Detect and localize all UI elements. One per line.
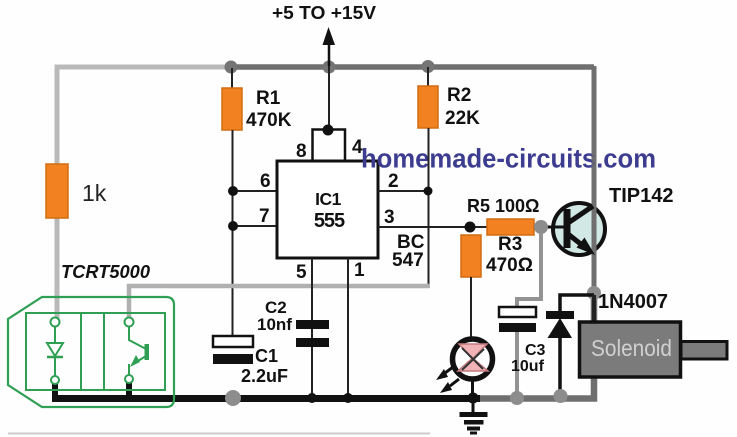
- wire: dark gray top supply rail: [229, 64, 594, 70]
- label R3 470ohm: [486, 234, 533, 276]
- label TIP142: [609, 185, 673, 207]
- pin label 3: [384, 207, 395, 228]
- label R1 470K: [246, 88, 292, 131]
- wire: pin 3 output line to R5: [378, 226, 487, 228]
- sensor phototransistor (inside TCRT5000): [125, 318, 150, 384]
- node: diode-rail junction: [554, 389, 568, 403]
- wire: collector node down to solenoid top: [592, 295, 596, 323]
- LED indicator: [453, 339, 493, 379]
- node: junction pin3 / R5 / R3: [465, 222, 476, 233]
- svg-text:+5 TO +15V: +5 TO +15V: [272, 3, 376, 23]
- label: +5 TO +15V: [272, 3, 376, 23]
- node: junction pins 8-4: [323, 125, 334, 136]
- pin label 7: [259, 206, 270, 227]
- pin label 4: [352, 137, 363, 158]
- svg-text:22K: 22K: [445, 108, 480, 129]
- svg-text:homemade-circuits.com: homemade-circuits.com: [361, 144, 656, 174]
- svg-text:3: 3: [384, 207, 395, 228]
- wire: collector node down to solenoid and bottom rail: [478, 292, 594, 399]
- svg-text:8: 8: [296, 141, 307, 162]
- wire: R5 to transistor base: [534, 226, 556, 229]
- wire: R1 bottom lead down to C1: [232, 130, 234, 337]
- label IC1 555: [314, 189, 345, 232]
- wire: pin 2 stub to R2 line: [378, 190, 428, 192]
- svg-text:C3: C3: [525, 342, 546, 359]
- watermark homemade-circuits.com: [361, 142, 656, 176]
- svg-text:IC1: IC1: [315, 189, 342, 209]
- svg-text:470K: 470K: [246, 110, 292, 131]
- solenoid: [580, 322, 728, 377]
- label 1k: [82, 180, 107, 206]
- decorative faint bottom line: [8, 433, 430, 435]
- svg-text:470Ω: 470Ω: [486, 255, 533, 276]
- node: rail junction at supply arrow: [323, 61, 336, 74]
- svg-text:5: 5: [296, 262, 307, 283]
- node: rail junction at R1: [225, 61, 238, 74]
- svg-text:2.2uF: 2.2uF: [241, 366, 288, 386]
- pin label 6: [260, 171, 271, 192]
- ground: [460, 398, 488, 435]
- node: rail junction at R2: [422, 60, 435, 73]
- label R5 100ohm: [467, 196, 539, 216]
- wire: pin 6 stub to R1 line: [233, 190, 277, 192]
- label BC 547: [392, 232, 425, 271]
- svg-text:R5 100Ω: R5 100Ω: [467, 196, 539, 216]
- resistor R3: [461, 235, 481, 277]
- wire: R2 top lead: [427, 67, 429, 87]
- svg-text:R1: R1: [256, 88, 281, 109]
- node: LED/ground rail junction: [468, 393, 479, 404]
- label C3 10uf: [511, 342, 546, 375]
- power: +5 TO +15V supply arrow: [323, 27, 336, 66]
- svg-text:TCRT5000: TCRT5000: [61, 262, 150, 282]
- capacitor C2: [296, 320, 329, 347]
- wire: diode branch from collector node: [560, 295, 594, 311]
- svg-text:TIP142: TIP142: [609, 185, 673, 207]
- transistor Q1 TIP142: [545, 203, 605, 255]
- resistor R1: [222, 88, 242, 130]
- svg-text:Solenoid: Solenoid: [591, 335, 672, 361]
- diode D1 1N4007: [546, 311, 574, 338]
- label C2 10nf: [257, 298, 292, 334]
- svg-text:C1: C1: [255, 346, 278, 366]
- op-amp/timer IC1 555 box: [277, 161, 378, 258]
- node: junction pin 2 / R2: [424, 187, 433, 196]
- wire: pin 7 stub to R1 line: [233, 225, 277, 227]
- wire: C3 bottom lead to rail: [515, 332, 519, 398]
- label TCRT5000: [61, 262, 150, 282]
- label 1N4007: [598, 291, 668, 313]
- wire: pin 1 lead down to rail: [347, 258, 349, 398]
- wire: diode anode to bottom rail: [558, 338, 562, 396]
- svg-text:547: 547: [392, 250, 424, 271]
- node: pin5/C2 rail junction: [307, 393, 317, 403]
- wire: supply dropper to pins 8 and 4: [328, 66, 330, 129]
- node: junction pin 7: [228, 221, 238, 231]
- pin label 8: [296, 141, 307, 162]
- resistor R5: [487, 219, 534, 235]
- node: base junction dot: [534, 220, 548, 234]
- wire: TCRT IR-LED cathode to rail: [52, 383, 58, 398]
- svg-text:R2: R2: [447, 85, 471, 106]
- node: C1 rail junction: [225, 390, 241, 406]
- label C1 2.2uF: [241, 346, 288, 386]
- wire: LED cathode to rail: [471, 378, 474, 398]
- label R2 22K: [445, 85, 480, 129]
- wire: sensor output line from TCRT collector to R2/pin2: [129, 286, 430, 318]
- node: C3 rail junction: [510, 391, 524, 405]
- LED light arrows: [436, 367, 459, 393]
- sensor inner frame: [26, 313, 165, 390]
- resistor 1k: [46, 164, 68, 218]
- wire: R2 bottom lead down to sensor line: [428, 128, 430, 284]
- svg-text:7: 7: [259, 206, 270, 227]
- svg-text:10nf: 10nf: [257, 315, 292, 334]
- wire: R3 bottom lead to LED: [470, 277, 472, 340]
- wire: pin 5 lead down through C2 to rail: [311, 258, 313, 398]
- svg-text:R3: R3: [498, 234, 522, 255]
- svg-text:2: 2: [388, 171, 399, 192]
- pin label 2: [388, 171, 399, 192]
- sensor TCRT5000 outline: [8, 297, 174, 407]
- wire: TCRT emitter to rail: [126, 382, 132, 398]
- resistor R2: [418, 86, 438, 128]
- node: junction pin 6: [228, 186, 238, 196]
- svg-text:6: 6: [260, 171, 271, 192]
- wire: light gray wire from supply rail down to 1k and TCRT anode: [57, 67, 233, 320]
- wire: R1 top lead: [231, 68, 233, 89]
- svg-text:10uf: 10uf: [511, 358, 545, 375]
- sensor IR LED (inside TCRT5000): [47, 318, 63, 385]
- wire: base node down to C3: [517, 233, 541, 308]
- node: collector/solenoid/diode junction: [587, 286, 601, 300]
- wire: right vertical supply wire down to transistor collector: [592, 66, 597, 294]
- wire: bottom black ground rail: [52, 395, 480, 402]
- pin label 1: [354, 260, 365, 281]
- svg-text:1: 1: [354, 260, 365, 281]
- svg-text:1N4007: 1N4007: [598, 291, 668, 313]
- svg-text:555: 555: [314, 210, 345, 232]
- svg-text:1k: 1k: [82, 180, 107, 206]
- capacitor C3: [499, 307, 536, 332]
- node: pin1 rail junction: [343, 393, 353, 403]
- wire: pin 8-4 bracket: [313, 130, 346, 162]
- pin label 5: [296, 262, 307, 283]
- capacitor C1: [213, 336, 253, 364]
